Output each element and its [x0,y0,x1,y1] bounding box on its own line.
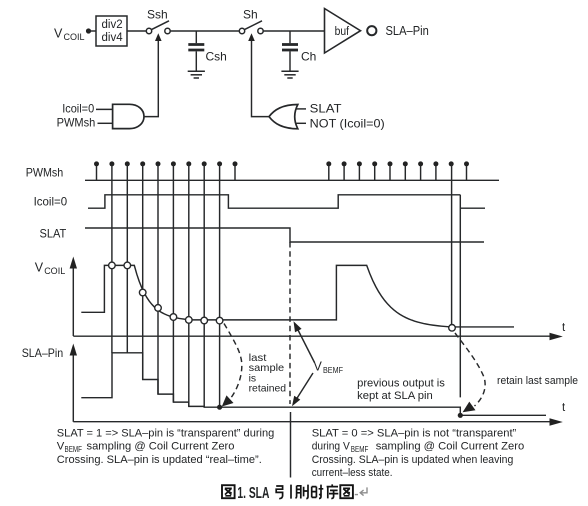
sample line 9 (to circle) [451,164,453,325]
dashed arc last sample retained [224,324,242,402]
svg-text:NOT (Icoil=0): NOT (Icoil=0) [310,117,385,131]
annotation previous output kept [357,378,445,403]
sample line 6 [188,164,190,407]
arrowhead Sh control [248,33,255,41]
svg-text:div4: div4 [102,32,124,44]
svg-text:Ssh: Ssh [147,8,168,22]
arrowhead VBEMF lower [292,396,300,406]
sample line 1 [111,164,113,353]
svg-text:during V: during V [312,441,351,453]
arrowhead SLA-Pin axis [70,344,77,356]
VBEMF arrow upper line [297,327,315,363]
svg-text:PWMsh: PWMsh [26,166,64,180]
switch Ssh [146,8,170,34]
arrowhead Ssh control [155,33,162,41]
wire VCOIL to divider [89,30,97,32]
or-gate U2 [269,105,298,129]
caption CJK xu [327,484,339,498]
Icoil fall line extended [459,195,461,398]
svg-text:SLAT: SLAT [310,102,343,116]
wire Sh to buffer [263,30,324,32]
node VCOIL row label [35,261,66,277]
sample circle 2 [124,262,131,269]
node last-sample dot [217,405,222,410]
svg-text:t: t [562,402,566,414]
wire SLAT input [296,108,306,110]
svg-text:Icoil=0: Icoil=0 [34,195,68,209]
arrowhead last sample retained [222,395,234,406]
divider of caption columns [290,412,292,478]
arrowhead VCOIL axis [70,257,77,269]
svg-text:SLAT: SLAT [40,227,67,241]
svg-text:BEMF: BEMF [323,365,343,375]
PWMsh pulse dots group1 [94,161,238,166]
wire PWMsh input [98,122,113,124]
sample circle 6 [186,317,193,324]
svg-text:div2: div2 [102,19,123,31]
switch Sh [239,8,263,34]
svg-text:Csh: Csh [206,50,227,64]
wire Icoil=0 input [96,108,113,110]
svg-text:previous output is: previous output is [357,378,445,390]
annotation VBEMF label [314,360,344,376]
caption CJK yin [276,485,291,499]
annotation SLAT=0 text block [312,428,525,480]
caption CJK tu (last) [340,485,353,498]
VBEMF arrow lower line [297,373,314,399]
PWMsh pulse ticks group2 [329,166,467,181]
wire Icoil=0 waveform [88,195,485,208]
svg-text:kept at SLA pin: kept at SLA pin [357,390,433,402]
annotation SLAT=1 text block [57,428,274,466]
svg-text:COIL: COIL [44,266,65,276]
PWMsh pulse dots group2 [326,161,469,166]
wire Ssh to Sh [170,30,239,32]
svg-text:SLA–Pin: SLA–Pin [386,24,429,38]
svg-text:Ch: Ch [301,50,316,64]
wire OR output to Sh control [252,40,270,117]
capacitor Csh [188,31,227,71]
sample circle 5 [170,314,177,321]
sample circle 4 [155,305,162,312]
svg-text:BEMF: BEMF [65,444,83,454]
svg-text:retained: retained [249,384,287,395]
svg-text:Crossing. SLA–pin is updated “: Crossing. SLA–pin is updated “real–time”… [57,454,262,466]
svg-text:PWMsh: PWMsh [57,116,96,130]
svg-text:t: t [562,322,566,334]
svg-text:V: V [54,27,63,41]
wire SLA-Pin staircase waveform [81,353,546,416]
caption CJK shi [312,485,324,499]
arrowhead retain last sample [463,402,476,413]
axis VCOIL vertical [72,268,74,337]
svg-text:V: V [35,261,44,275]
svg-text:buf: buf [335,26,350,38]
sample line 5 [172,164,174,402]
svg-text:1. SLA: 1. SLA [237,485,269,502]
wire PWMsh baseline [85,179,499,181]
ground for Csh [188,71,205,78]
caption figure title [222,484,367,501]
node retained dot [458,413,463,418]
node VCOIL dot [86,28,91,33]
svg-text:COIL: COIL [64,32,85,42]
divider block div2/div4 [96,16,127,46]
svg-text:retain last sample: retain last sample [497,375,578,387]
caption CJK jiao [295,485,308,499]
PWMsh pulse ticks group1 [97,166,236,181]
node VCOIL label [54,27,85,43]
wire divider to Ssh [127,30,146,32]
sample line 7 [203,164,205,407]
and-gate U1 [113,104,144,128]
svg-text:current–less state.: current–less state. [312,467,393,479]
svg-text:SLAT = 0 => SLA–pin is not “tr: SLAT = 0 => SLA–pin is not “transparent” [312,428,517,440]
wire VCOIL waveform [81,265,514,327]
svg-text:sampling @ Coil Current Zero: sampling @ Coil Current Zero [87,441,235,453]
svg-text:Sh: Sh [243,8,258,22]
sample circle 8 [216,317,223,324]
dashed timing divider [289,242,291,404]
sample line 3 [142,164,144,380]
sample circle 9 (last) [449,325,456,332]
sample circle 7 [201,317,208,324]
sample line 8 [219,164,221,407]
sample line 4 [157,164,159,394]
dashed arc retain last sample [455,333,485,406]
svg-text:SLAT = 1 => SLA–pin is “transp: SLAT = 1 => SLA–pin is “transparent” dur… [57,428,274,440]
arrowhead VBEMF upper [294,321,302,332]
svg-text:BEMF: BEMF [351,444,369,454]
wire NOT(Icoil=0) input [296,122,306,124]
capacitor Ch [282,31,316,71]
sample line 2 [126,164,128,353]
sample circle 3 [139,289,146,296]
caption CJK tu (figure) [222,485,235,498]
svg-text:sampling @ Coil Current Zero: sampling @ Coil Current Zero [376,441,525,453]
svg-text:Icoil=0: Icoil=0 [62,102,94,116]
axis SLA-Pin horizontal [73,421,550,423]
arrowhead VCOIL t-axis [550,333,563,341]
ground for Ch [281,71,298,78]
svg-text:SLA–Pin: SLA–Pin [22,346,64,360]
annotation last sample is retained [249,353,287,395]
pin SLA-Pin bubble [367,26,376,35]
caption return mark [355,487,367,495]
axis VCOIL horizontal [73,335,550,337]
axis SLA-Pin vertical [72,355,74,422]
wire AND output to Ssh control [144,40,158,117]
op-amp buffer buf [325,9,361,54]
sample circle 1 [109,262,116,269]
svg-text:Crossing. SLA–pin is updated w: Crossing. SLA–pin is updated when leavin… [312,454,514,466]
wire SLAT waveform [85,228,484,242]
arrowhead SLA-Pin t-axis [550,418,563,426]
